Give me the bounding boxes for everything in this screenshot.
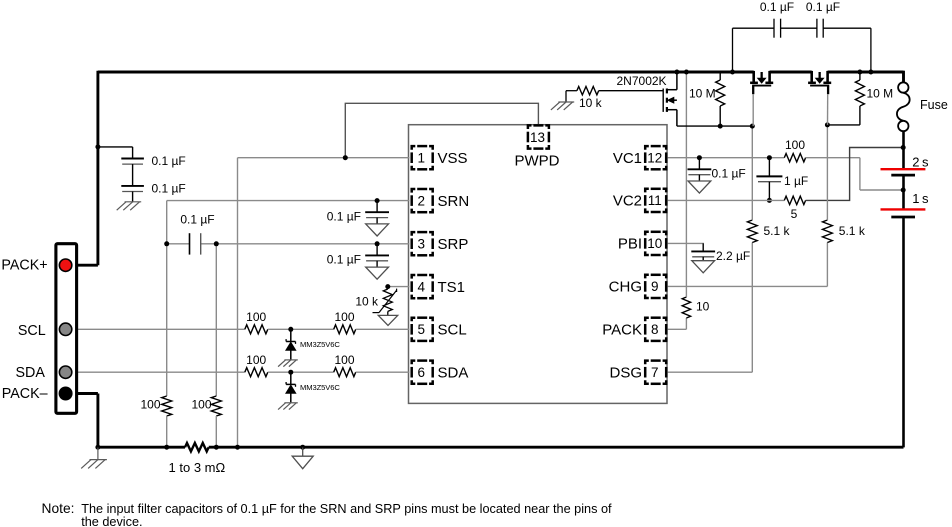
svg-text:5: 5: [418, 322, 426, 337]
svg-text:100: 100: [334, 353, 354, 367]
svg-text:SRP: SRP: [438, 236, 469, 253]
svg-text:100: 100: [191, 398, 211, 412]
svg-text:100: 100: [246, 310, 266, 324]
svg-text:6: 6: [418, 365, 426, 380]
svg-text:10 M: 10 M: [867, 87, 894, 101]
svg-text:PACK+: PACK+: [1, 257, 47, 273]
svg-text:11: 11: [648, 193, 662, 208]
svg-text:PBI: PBI: [618, 236, 642, 253]
svg-text:7: 7: [651, 365, 659, 380]
svg-text:Note:: Note:: [42, 501, 75, 516]
svg-text:0.1 µF: 0.1 µF: [327, 210, 361, 224]
svg-text:VSS: VSS: [438, 150, 468, 167]
svg-text:SDA: SDA: [15, 365, 45, 381]
svg-text:2.2 µF: 2.2 µF: [716, 249, 750, 263]
svg-text:13: 13: [530, 130, 545, 145]
svg-text:MM3Z5V6C: MM3Z5V6C: [300, 383, 340, 392]
svg-text:0.1 µF: 0.1 µF: [806, 0, 840, 14]
svg-text:5.1 k: 5.1 k: [764, 224, 791, 238]
svg-text:10: 10: [647, 236, 662, 251]
svg-text:100: 100: [246, 353, 266, 367]
svg-text:1 to 3 mΩ: 1 to 3 mΩ: [169, 460, 226, 475]
svg-text:3: 3: [418, 237, 426, 252]
svg-text:SCL: SCL: [438, 322, 467, 339]
svg-text:8: 8: [651, 322, 659, 337]
svg-text:10 M: 10 M: [689, 87, 716, 101]
svg-text:1 s: 1 s: [912, 191, 929, 206]
svg-text:10: 10: [696, 300, 710, 314]
svg-text:2 s: 2 s: [912, 154, 929, 169]
svg-text:Fuse: Fuse: [920, 98, 948, 112]
svg-text:PWPD: PWPD: [515, 152, 560, 169]
svg-text:MM3Z5V6C: MM3Z5V6C: [300, 340, 340, 349]
svg-text:2: 2: [418, 193, 426, 208]
svg-text:1: 1: [418, 151, 426, 166]
svg-text:1 µF: 1 µF: [784, 174, 808, 188]
svg-text:SDA: SDA: [438, 364, 469, 381]
svg-text:VC2: VC2: [613, 193, 642, 210]
svg-text:PACK: PACK: [602, 322, 642, 339]
svg-text:100: 100: [785, 138, 805, 152]
svg-text:0.1 µF: 0.1 µF: [712, 166, 746, 180]
svg-text:2N7002K: 2N7002K: [617, 74, 667, 88]
svg-text:0.1 µF: 0.1 µF: [152, 181, 186, 195]
svg-text:The input filter capacitors of: The input filter capacitors of 0.1 µF fo…: [81, 502, 612, 516]
svg-text:10 k: 10 k: [355, 295, 379, 309]
svg-text:5: 5: [791, 207, 798, 221]
svg-text:SCL: SCL: [18, 323, 46, 339]
svg-text:0.1 µF: 0.1 µF: [180, 213, 214, 227]
svg-text:9: 9: [651, 279, 659, 294]
svg-text:SRN: SRN: [438, 193, 470, 210]
svg-text:0.1 µF: 0.1 µF: [152, 154, 186, 168]
svg-text:10 k: 10 k: [579, 96, 603, 110]
svg-text:0.1 µF: 0.1 µF: [760, 0, 794, 14]
svg-text:DSG: DSG: [609, 364, 642, 381]
svg-text:4: 4: [418, 279, 426, 294]
svg-text:12: 12: [647, 151, 662, 166]
svg-text:5.1 k: 5.1 k: [839, 224, 866, 238]
svg-text:0.1 µF: 0.1 µF: [327, 253, 361, 267]
svg-text:TS1: TS1: [438, 279, 466, 296]
svg-text:PACK–: PACK–: [2, 386, 48, 402]
svg-text:VC1: VC1: [613, 150, 642, 167]
svg-text:the device.: the device.: [81, 515, 142, 527]
svg-text:100: 100: [140, 398, 160, 412]
svg-text:100: 100: [334, 310, 354, 324]
svg-text:CHG: CHG: [609, 279, 642, 296]
